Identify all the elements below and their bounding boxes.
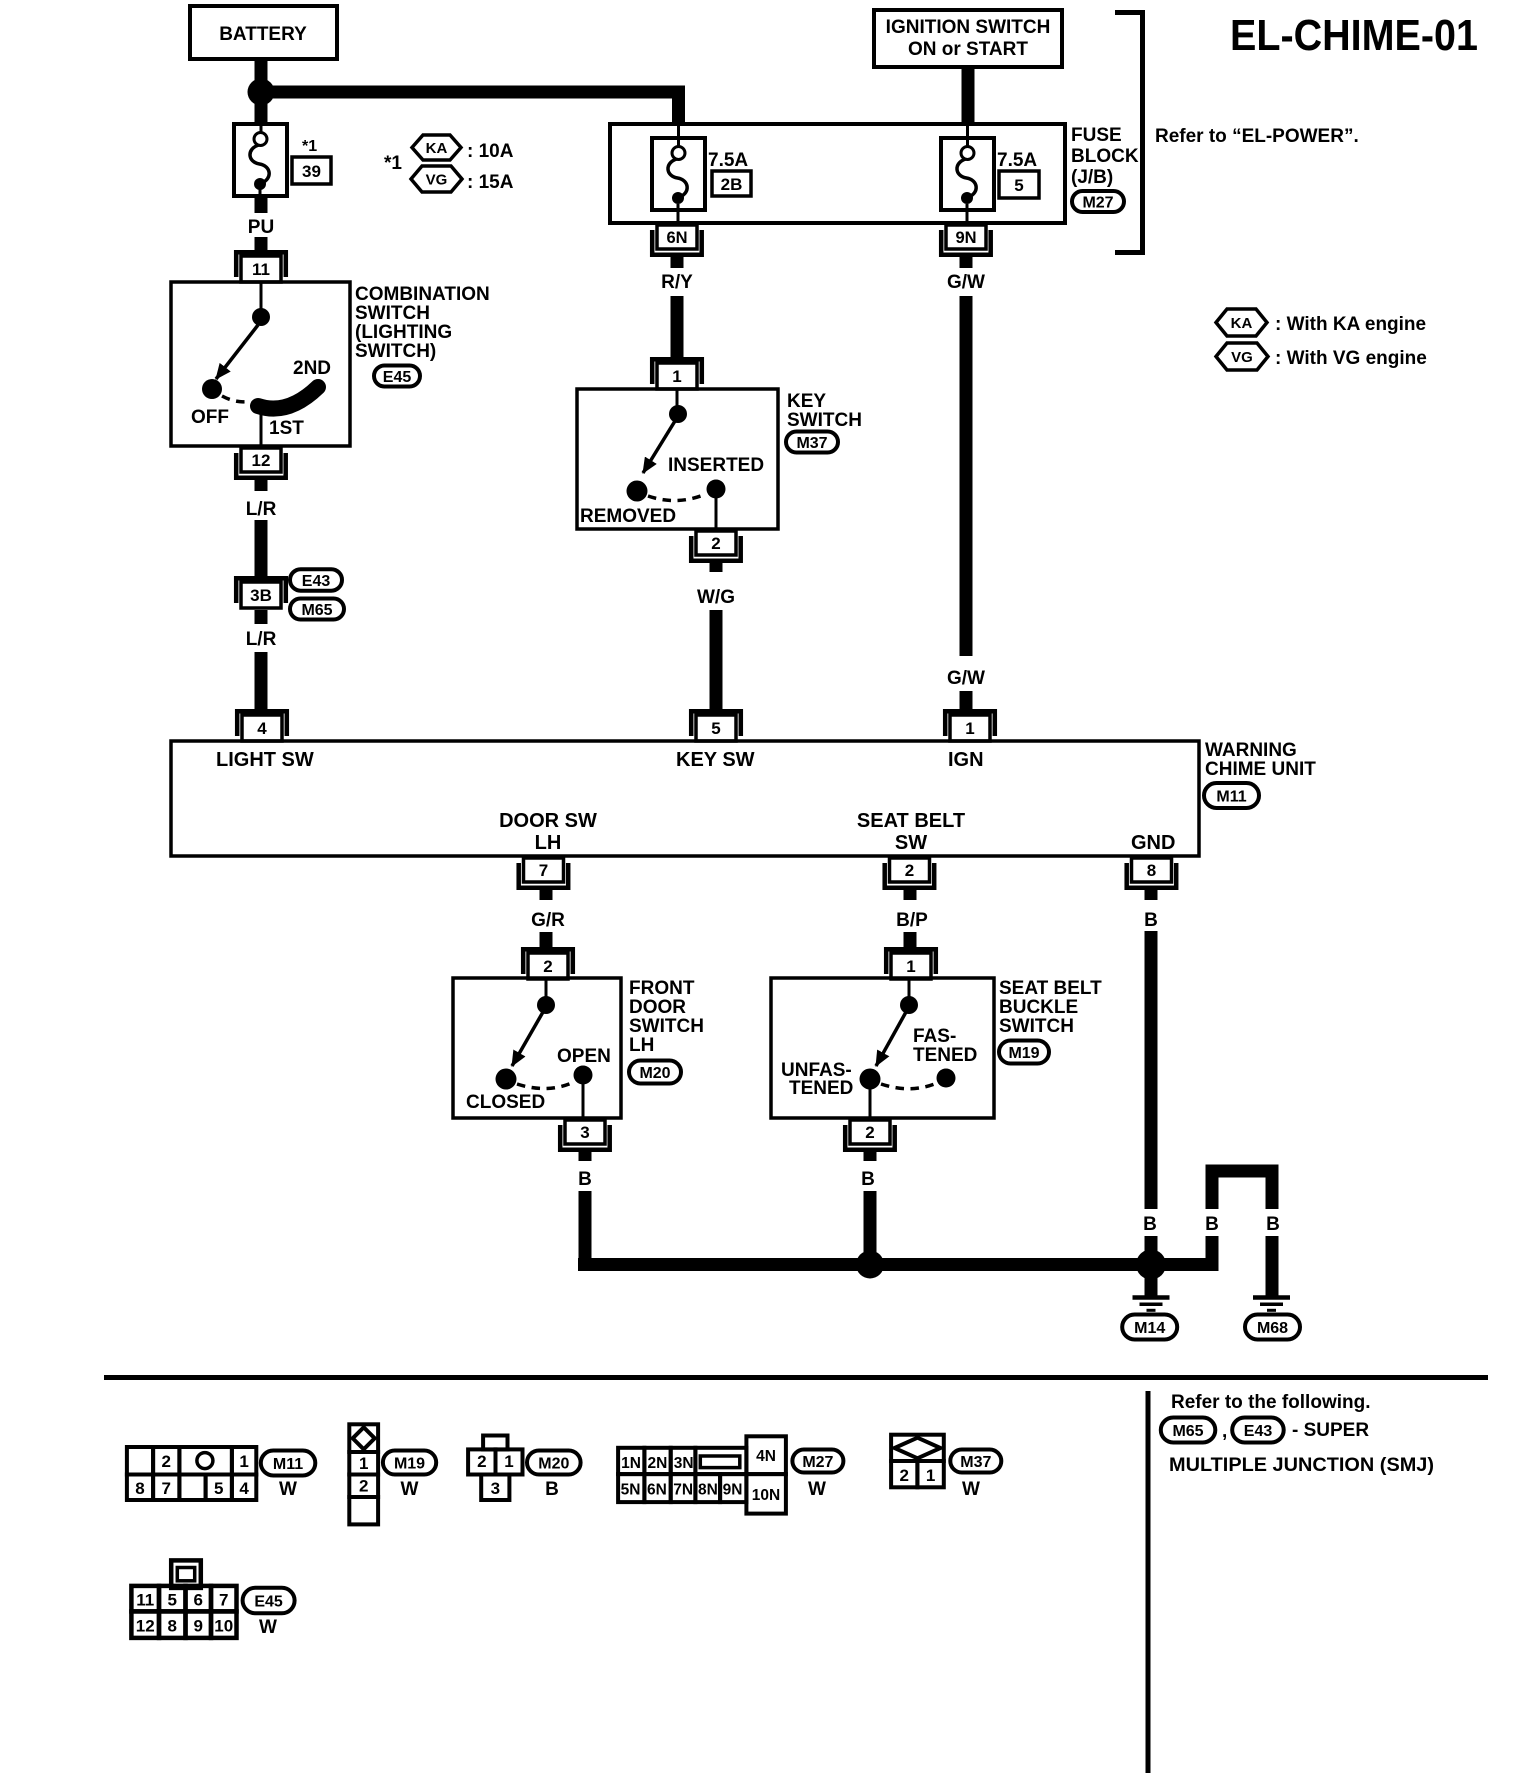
svg-text:5N: 5N <box>621 1482 641 1499</box>
svg-text:5: 5 <box>214 1479 223 1498</box>
svg-text:*1: *1 <box>302 138 317 155</box>
svg-text:1ST: 1ST <box>269 418 304 439</box>
svg-text:6: 6 <box>194 1591 203 1610</box>
svg-text:9N: 9N <box>955 229 976 247</box>
svg-text:7: 7 <box>161 1479 170 1498</box>
svg-text:DOOR SW: DOOR SW <box>499 810 597 832</box>
svg-text:L/R: L/R <box>246 629 277 650</box>
svg-text:8: 8 <box>135 1479 144 1498</box>
svg-text:LIGHT SW: LIGHT SW <box>216 749 314 771</box>
svg-text:SWITCH: SWITCH <box>999 1016 1074 1037</box>
svg-text:5: 5 <box>168 1591 177 1610</box>
svg-text:BLOCK: BLOCK <box>1071 146 1139 167</box>
svg-text:1: 1 <box>504 1452 513 1471</box>
svg-text:M19: M19 <box>1008 1045 1039 1062</box>
svg-text:2: 2 <box>161 1452 170 1471</box>
svg-text:- SUPER: - SUPER <box>1292 1420 1369 1441</box>
svg-text:SEAT BELT: SEAT BELT <box>999 978 1102 999</box>
svg-text:2: 2 <box>899 1466 908 1485</box>
svg-text:6N: 6N <box>647 1482 667 1499</box>
svg-text:7N: 7N <box>673 1482 693 1499</box>
svg-text:M14: M14 <box>1134 1320 1165 1337</box>
svg-text:3: 3 <box>491 1479 500 1498</box>
svg-text:5: 5 <box>711 719 720 738</box>
svg-text:KA: KA <box>426 140 448 157</box>
svg-text:E45: E45 <box>254 1593 283 1610</box>
svg-text:: With KA engine: : With KA engine <box>1275 314 1426 335</box>
svg-text:3: 3 <box>580 1123 589 1142</box>
svg-text:12: 12 <box>252 451 271 470</box>
svg-text:B: B <box>1144 910 1158 931</box>
svg-text:M65: M65 <box>301 602 332 619</box>
svg-text:1: 1 <box>926 1466 935 1485</box>
svg-text:1: 1 <box>965 719 974 738</box>
svg-text:WARNING: WARNING <box>1205 740 1297 761</box>
svg-text:12: 12 <box>136 1617 155 1636</box>
svg-text:BATTERY: BATTERY <box>219 24 307 45</box>
svg-text:5: 5 <box>1014 176 1023 195</box>
svg-text:W: W <box>962 1479 980 1500</box>
svg-text:W: W <box>808 1479 826 1500</box>
svg-text:1: 1 <box>906 957 915 976</box>
svg-text:B/P: B/P <box>896 910 928 931</box>
svg-text:BUCKLE: BUCKLE <box>999 997 1078 1018</box>
svg-text:Refer to “EL-POWER”.: Refer to “EL-POWER”. <box>1155 126 1359 147</box>
svg-text:2B: 2B <box>721 175 743 194</box>
svg-text:M19: M19 <box>394 1455 425 1472</box>
svg-text:,: , <box>1222 1421 1227 1442</box>
svg-text:SEAT BELT: SEAT BELT <box>857 810 965 832</box>
svg-text:COMBINATION: COMBINATION <box>355 284 490 305</box>
svg-text:M65: M65 <box>1172 1423 1203 1440</box>
svg-text:11: 11 <box>252 260 270 279</box>
svg-text:B: B <box>1266 1214 1280 1235</box>
svg-text:E43: E43 <box>1244 1423 1273 1440</box>
svg-text:9: 9 <box>194 1617 203 1636</box>
svg-text:M37: M37 <box>960 1454 991 1471</box>
svg-text:3B: 3B <box>250 586 272 605</box>
svg-text:MULTIPLE JUNCTION (SMJ): MULTIPLE JUNCTION (SMJ) <box>1169 1455 1434 1476</box>
svg-text:EL-CHIME-01: EL-CHIME-01 <box>1230 11 1478 60</box>
svg-text:OPEN: OPEN <box>557 1046 611 1067</box>
svg-text:(LIGHTING: (LIGHTING <box>355 322 452 343</box>
svg-text:2: 2 <box>905 861 914 880</box>
svg-text:B: B <box>545 1479 559 1500</box>
svg-text:M11: M11 <box>273 1456 303 1473</box>
svg-text:9N: 9N <box>723 1482 743 1499</box>
svg-text:6N: 6N <box>666 229 687 247</box>
svg-text:M11: M11 <box>1216 788 1246 805</box>
svg-text:G/W: G/W <box>947 272 985 293</box>
svg-text:4: 4 <box>257 719 267 738</box>
svg-text:SWITCH: SWITCH <box>355 303 430 324</box>
svg-text:1: 1 <box>672 367 681 386</box>
svg-text:4: 4 <box>239 1479 249 1498</box>
svg-text:R/Y: R/Y <box>661 272 693 293</box>
svg-text:: 10A: : 10A <box>467 141 514 162</box>
svg-text:2N: 2N <box>647 1455 667 1472</box>
svg-text:ON or START: ON or START <box>908 39 1028 60</box>
svg-text:SWITCH): SWITCH) <box>355 341 436 362</box>
svg-text:B: B <box>1143 1214 1157 1235</box>
svg-text:IGN: IGN <box>948 749 984 771</box>
svg-text:2: 2 <box>711 534 720 553</box>
svg-text:39: 39 <box>302 162 321 181</box>
svg-text:E45: E45 <box>383 369 412 386</box>
svg-text:REMOVED: REMOVED <box>580 506 676 527</box>
svg-text:LH: LH <box>629 1035 654 1056</box>
svg-text:TENED: TENED <box>789 1078 853 1099</box>
svg-text:7: 7 <box>539 861 548 880</box>
svg-text:B: B <box>578 1169 592 1190</box>
svg-text:7.5A: 7.5A <box>997 150 1037 171</box>
svg-text:10: 10 <box>214 1617 233 1636</box>
svg-text:(J/B): (J/B) <box>1071 167 1113 188</box>
svg-text:B: B <box>861 1169 875 1190</box>
svg-text:M37: M37 <box>796 435 827 452</box>
svg-text:IGNITION SWITCH: IGNITION SWITCH <box>886 17 1051 38</box>
svg-text:W: W <box>401 1479 419 1500</box>
svg-text:8: 8 <box>168 1617 177 1636</box>
svg-text:KA: KA <box>1231 315 1253 332</box>
svg-text:OFF: OFF <box>191 407 229 428</box>
svg-text:*1: *1 <box>384 153 402 174</box>
svg-text:7.5A: 7.5A <box>708 150 748 171</box>
svg-text:SWITCH: SWITCH <box>787 410 862 431</box>
svg-text:TENED: TENED <box>913 1045 977 1066</box>
svg-text:SW: SW <box>895 832 927 854</box>
svg-text:KEY SW: KEY SW <box>676 749 755 771</box>
svg-text:L/R: L/R <box>246 499 277 520</box>
svg-text:W/G: W/G <box>697 587 735 608</box>
svg-text:8: 8 <box>1147 861 1156 880</box>
svg-text:G/R: G/R <box>531 910 565 931</box>
svg-text:11: 11 <box>136 1591 154 1610</box>
svg-text:2ND: 2ND <box>293 358 331 379</box>
svg-text:2: 2 <box>543 957 552 976</box>
svg-text:: With VG engine: : With VG engine <box>1275 348 1427 369</box>
svg-text:CHIME UNIT: CHIME UNIT <box>1205 759 1316 780</box>
svg-text:M68: M68 <box>1257 1320 1288 1337</box>
svg-text:: 15A: : 15A <box>467 172 514 193</box>
svg-text:10N: 10N <box>752 1487 780 1504</box>
svg-text:2: 2 <box>477 1452 486 1471</box>
svg-text:CLOSED: CLOSED <box>466 1092 545 1113</box>
svg-text:M27: M27 <box>802 1454 833 1471</box>
svg-text:4N: 4N <box>756 1448 776 1465</box>
svg-text:FUSE: FUSE <box>1071 125 1122 146</box>
svg-text:M20: M20 <box>538 1455 569 1472</box>
svg-text:DOOR: DOOR <box>629 997 686 1018</box>
svg-text:LH: LH <box>535 832 562 854</box>
svg-text:2: 2 <box>359 1477 368 1496</box>
svg-text:VG: VG <box>1231 349 1253 366</box>
svg-text:GND: GND <box>1131 832 1175 854</box>
svg-text:FRONT: FRONT <box>629 978 695 999</box>
svg-text:7: 7 <box>219 1591 228 1610</box>
svg-text:INSERTED: INSERTED <box>668 455 764 476</box>
svg-text:M27: M27 <box>1082 194 1113 211</box>
svg-text:G/W: G/W <box>947 668 985 689</box>
svg-text:1: 1 <box>359 1454 368 1473</box>
svg-text:PU: PU <box>248 217 274 238</box>
svg-text:8N: 8N <box>698 1482 718 1499</box>
svg-text:KEY: KEY <box>787 391 826 412</box>
svg-text:W: W <box>279 1479 297 1500</box>
svg-text:2: 2 <box>865 1123 874 1142</box>
svg-text:E43: E43 <box>302 573 331 590</box>
svg-text:1N: 1N <box>621 1455 641 1472</box>
svg-text:Refer to the following.: Refer to the following. <box>1171 1392 1371 1413</box>
svg-text:FAS-: FAS- <box>913 1026 956 1047</box>
svg-text:1: 1 <box>239 1452 248 1471</box>
svg-text:M20: M20 <box>639 1065 670 1082</box>
svg-text:B: B <box>1205 1214 1219 1235</box>
svg-text:SWITCH: SWITCH <box>629 1016 704 1037</box>
svg-text:W: W <box>259 1617 277 1638</box>
svg-text:VG: VG <box>426 171 448 188</box>
svg-text:3N: 3N <box>674 1455 694 1472</box>
